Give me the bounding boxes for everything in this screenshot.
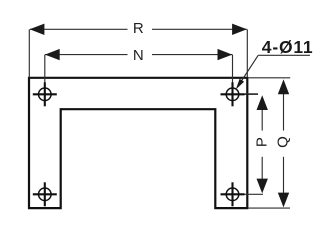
arrow Q bottom — [278, 193, 289, 208]
extension line right (N) — [232, 55, 234, 83]
hole top-left: circle — [39, 88, 52, 101]
hole top-right: crosshair — [221, 93, 245, 95]
svg-text:R: R — [133, 20, 144, 37]
dimension line P — [261, 102, 263, 131]
dimension line N — [45, 54, 128, 56]
svg-text:P: P — [253, 137, 270, 147]
extension line left (N) — [44, 55, 46, 83]
arrow R left — [30, 24, 45, 35]
leader line for 4-Ø11 — [258, 54, 310, 56]
hole bottom-right: circle — [226, 188, 239, 201]
hole bottom-left: circle — [39, 188, 52, 201]
leader arrowhead at hole — [236, 79, 244, 90]
dimension line Q — [283, 86, 285, 131]
dimension line R — [30, 28, 128, 30]
hole top-left: crosshair — [33, 93, 57, 95]
hole bottom-left: crosshair — [33, 193, 57, 195]
extension line bottom (P, from bottom-right hole) — [245, 193, 264, 195]
arrow R right — [232, 24, 247, 35]
arrow Q top — [278, 79, 289, 94]
extension line top (P, from top-right hole) — [245, 93, 259, 95]
arrow N right — [218, 49, 233, 60]
hole top-right: circle — [226, 88, 239, 101]
extension line top (Q, from plate top edge) — [248, 77, 290, 79]
extension line bottom (Q, from plate bottom edge) — [248, 207, 290, 209]
hole bottom-right: crosshair — [221, 193, 245, 195]
svg-text:N: N — [133, 47, 144, 64]
extension line right (R) — [246, 29, 248, 77]
svg-text:4-Ø11: 4-Ø11 — [262, 37, 314, 57]
arrow P bottom — [257, 179, 268, 194]
arrow P top — [257, 95, 268, 110]
svg-text:Q: Q — [275, 136, 292, 148]
extension line left (R) — [28, 29, 30, 77]
arrow N left — [45, 49, 60, 60]
plate outline (U-shaped bracket) — [29, 78, 247, 208]
